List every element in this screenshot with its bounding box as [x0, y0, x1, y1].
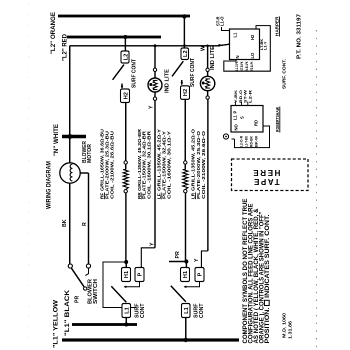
svg-text:L1-O-PR: L1-O-PR [235, 61, 239, 70]
svg-text:L1: L1 [184, 307, 190, 314]
svg-text:L1: L1 [233, 114, 238, 120]
svg-text:COIL -2100W, 26.6Ω-O: COIL -2100W, 26.6Ω-O [201, 130, 206, 199]
svg-text:HERE: HERE [252, 168, 281, 177]
svg-text:H1: H1 [183, 271, 189, 278]
svg-text:N-BU-PK: N-BU-PK [245, 61, 249, 70]
svg-text:COIL -2100W, 26.6Ω-BU: COIL -2100W, 26.6Ω-BU [110, 130, 115, 199]
svg-text:"L1" YELLOW: "L1" YELLOW [52, 300, 59, 348]
svg-text:N: N [235, 55, 240, 58]
svg-text:MOTOR: MOTOR [87, 144, 93, 163]
svg-text:CONT: CONT [199, 303, 205, 318]
svg-text:P: P [233, 111, 238, 114]
svg-text:L1-Y-BU: L1-Y-BU [244, 136, 248, 147]
svg-text:Y-BK: Y-BK [234, 90, 238, 103]
svg-text:H2: H2 [123, 92, 129, 99]
svg-text:WIRING DIAGRAM: WIRING DIAGRAM [47, 161, 53, 209]
svg-text:BK-W: BK-W [254, 136, 258, 147]
svg-text:ST-W: ST-W [244, 89, 248, 103]
svg-text:CONT: CONT [140, 303, 146, 318]
svg-text:SURF CONT: SURF CONT [190, 57, 196, 87]
svg-text:W: W [201, 45, 207, 51]
svg-text:P.T. NO. 331197: P.T. NO. 331197 [297, 14, 303, 59]
svg-text:L2-R: L2-R [248, 90, 252, 103]
svg-text:BK: BK [62, 219, 68, 227]
svg-text:RD-BU-PK: RD-BU-PK [250, 61, 254, 70]
svg-text:ST-B-PK: ST-B-PK [240, 61, 244, 70]
svg-text:PR: PR [75, 296, 81, 303]
svg-text:RD-O: RD-O [239, 90, 243, 103]
svg-text:RD-BK: RD-BK [249, 136, 253, 147]
svg-text:L1-O: L1-O [219, 16, 224, 26]
svg-text:R: R [82, 222, 88, 226]
svg-text:NO: NO [234, 123, 239, 130]
svg-text:"L1" BLACK: "L1" BLACK [64, 289, 71, 336]
svg-text:LO: LO [250, 52, 255, 59]
svg-text:Y: Y [194, 258, 200, 262]
svg-text:L1-Y: L1-Y [263, 41, 268, 50]
svg-text:S: S [239, 116, 244, 119]
svg-text:PR: PR [175, 251, 181, 258]
svg-text:TAPE: TAPE [252, 177, 279, 186]
svg-text:IND LITE: IND LITE [164, 69, 170, 93]
svg-text:Y: Y [150, 242, 156, 246]
svg-text:P: P [138, 272, 144, 276]
svg-text:HARPER: HARPER [275, 16, 280, 36]
svg-text:COIL -1600W, 30.1Ω-Y: COIL -1600W, 30.1Ω-Y [167, 131, 172, 199]
svg-text:Y: Y [148, 105, 154, 109]
svg-text:H1: H1 [124, 271, 130, 278]
svg-text:1.31.86: 1.31.86 [288, 320, 293, 339]
svg-text:P: P [198, 272, 204, 276]
svg-text:H2: H2 [183, 89, 189, 96]
svg-text:RD: RD [253, 120, 258, 126]
svg-text:SURF. CONT.: SURF. CONT. [282, 59, 287, 89]
svg-text:SURF CONT: SURF CONT [132, 58, 138, 88]
svg-text:M.D. 1060: M.D. 1060 [282, 312, 287, 338]
svg-text:L1: L1 [124, 307, 130, 314]
svg-text:L2-O-R: L2-O-R [239, 136, 243, 147]
svg-text:"N" WHITE: "N" WHITE [53, 124, 60, 156]
svg-text:"L2" ORANGE: "L2" ORANGE [50, 12, 57, 54]
svg-text:"L2" RED: "L2" RED [62, 33, 69, 61]
svg-text:SWITCH: SWITCH [93, 279, 99, 304]
svg-text:L2: L2 [183, 50, 189, 57]
svg-text:ROBERTSHAW: ROBERTSHAW [275, 107, 280, 132]
svg-text:H2: H2 [250, 34, 255, 40]
svg-text:L1: L1 [232, 32, 237, 38]
svg-text:L2: L2 [123, 54, 129, 61]
svg-text:POSITION. INDICATES SURF.: POSITION. INDICATES SURF. CONT. [265, 214, 271, 343]
svg-text:COIL -1600W, 30.1Ω-BR: COIL -1600W, 30.1Ω-BR [147, 130, 152, 199]
svg-text:IND LITE: IND LITE [210, 46, 216, 70]
